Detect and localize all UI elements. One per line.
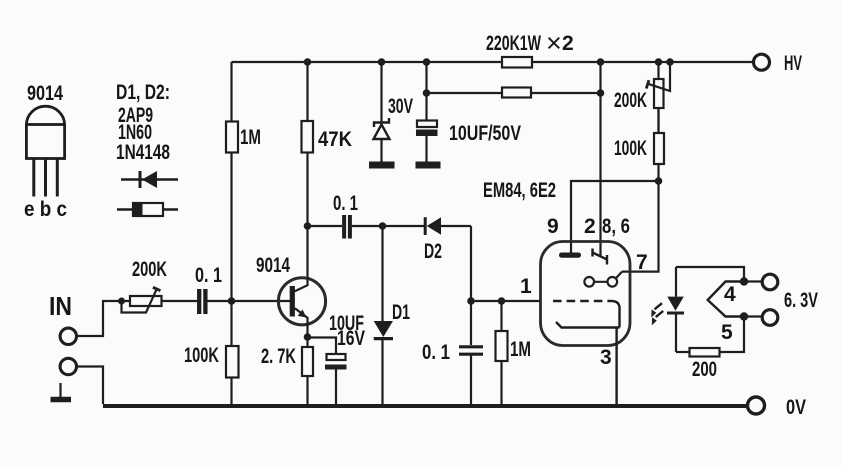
wire: heater bottom to terminal 5 [720, 317, 763, 353]
LED indicator [667, 267, 684, 352]
tube EM84/6E2 envelope [541, 242, 631, 346]
node: filter cap top on HV rail [423, 58, 431, 66]
node: 200K pot top on HV rail [655, 58, 663, 66]
svg-text:9014: 9014 [256, 254, 290, 277]
svg-text:0. 1: 0. 1 [333, 192, 358, 215]
terminal heater 5 [762, 310, 778, 326]
terminal 0V [748, 397, 765, 414]
svg-text:EM84, 6E2: EM84, 6E2 [483, 179, 556, 202]
heater filament symbol [708, 282, 744, 317]
svg-text:D1, D2:: D1, D2: [116, 81, 170, 104]
resistor 2.7K [302, 337, 313, 406]
svg-text:200K: 200K [132, 258, 167, 281]
node: 220K pair right on HV rail [597, 58, 605, 66]
wire: 200 resistor to LED [676, 351, 690, 353]
svg-text:6. 3V: 6. 3V [784, 289, 818, 312]
transistor Q1 9014 [278, 277, 325, 337]
capacitor 10UF 16V electrolytic [308, 338, 347, 407]
wire: second rail (filter node) [427, 92, 601, 94]
svg-text:200K: 200K [614, 89, 647, 112]
label 220K1W x2 [486, 28, 574, 58]
svg-text:D1: D1 [392, 301, 410, 324]
tube fluorescent target / pin 3 down wire [612, 301, 620, 328]
node: 100K bottom / screen junction [655, 177, 663, 185]
resistor 100K (input bias) [226, 301, 239, 406]
ground symbol [51, 383, 72, 400]
node: 1M bottom junction [228, 297, 236, 305]
svg-text:10UF/50V: 10UF/50V [449, 122, 521, 145]
resistor 1M (left, plate load) [226, 62, 238, 301]
wire: collector to 0.1 cap [308, 225, 343, 227]
node: filter cap on second rail [423, 89, 431, 97]
terminal IN upper [60, 328, 76, 344]
node: grid junction left [467, 297, 475, 305]
node: zener top on HV rail [378, 58, 386, 66]
wire: upper IN terminal to pot [77, 301, 131, 336]
ground bar of zener [369, 162, 395, 169]
capacitor 0.1 (top coupling) [344, 215, 350, 239]
capacitor 0.1 (input coupling) [199, 289, 205, 314]
svg-text:4: 4 [724, 283, 736, 306]
node: D1/D2 junction [379, 222, 387, 230]
node: heater top [740, 277, 748, 285]
svg-text:3: 3 [600, 346, 612, 369]
potentiometer 200K (input) [122, 287, 162, 312]
node: pot left junction [118, 298, 125, 305]
svg-text:2: 2 [562, 32, 574, 55]
capacitor 0.1 (grid) [459, 301, 483, 406]
svg-text:7: 7 [636, 251, 648, 274]
svg-text:5: 5 [721, 321, 733, 344]
ground bar of 10UF/50V [416, 162, 441, 169]
terminal heater 4 [762, 274, 778, 290]
wire: lower IN terminal to 0V rail [77, 367, 104, 405]
terminal HV [754, 54, 770, 70]
transistor package legend 9014 [26, 106, 64, 196]
resistor 47K [302, 62, 314, 277]
svg-text:×: × [546, 28, 562, 58]
wire: pin2/8,6 feed from rails [599, 62, 601, 257]
zener diode 30V [374, 62, 390, 163]
resistor 220K 1W upper [502, 57, 532, 68]
wire: screen feed to tube pin 9 [571, 181, 659, 256]
wire: LED loop top [676, 267, 763, 282]
diode D1 [374, 226, 393, 406]
svg-text:1N4148: 1N4148 [116, 141, 170, 164]
svg-text:16V: 16V [337, 327, 365, 350]
node: second rail to tube feed [597, 89, 605, 97]
tube electrode pin 9 bar [559, 253, 581, 258]
resistor 200 [690, 348, 720, 357]
tube pin 7 contact circles [584, 272, 622, 287]
svg-text:200: 200 [692, 358, 717, 381]
LED light arrows [651, 303, 663, 325]
node: heater bottom [740, 312, 748, 320]
svg-text:30V: 30V [388, 95, 413, 118]
svg-text:2. 7K: 2. 7K [261, 345, 296, 368]
node: collector / coupling junction [304, 222, 312, 230]
svg-text:9014: 9014 [27, 82, 63, 105]
svg-text:0V: 0V [786, 396, 806, 419]
potentiometer 200K (right) [654, 62, 664, 132]
svg-text:100K: 100K [184, 344, 219, 367]
svg-text:1M: 1M [510, 338, 531, 361]
svg-text:IN: IN [49, 291, 72, 321]
wire: pot to coupling cap [162, 300, 198, 302]
wire: cap to D2 [352, 225, 425, 227]
resistor 100K (right) [622, 109, 664, 272]
wire: cap to transistor base [207, 300, 290, 302]
tube grid dashed line (pin 1) [553, 300, 612, 302]
svg-text:1: 1 [520, 275, 532, 298]
node: emitter junction [304, 333, 312, 341]
diode schematic symbol legend [121, 171, 178, 188]
svg-text:100K: 100K [614, 137, 647, 160]
diode package drawing legend [117, 203, 178, 216]
tube cathode bar [556, 322, 620, 328]
resistor 220K 1W lower [502, 88, 531, 98]
node: 47K top on HV rail [304, 58, 312, 66]
terminal IN lower [60, 358, 76, 374]
capacitor 10UF/50V electrolytic [416, 62, 438, 163]
svg-text:47K: 47K [318, 128, 352, 151]
resistor 1M (grid) [496, 301, 508, 406]
wire: tube pin 3 to 0V rail [615, 328, 617, 407]
svg-text:2: 2 [584, 215, 596, 238]
svg-text:9: 9 [547, 215, 559, 238]
wiper of 200K pot [646, 62, 670, 91]
svg-text:0. 1: 0. 1 [422, 341, 450, 364]
svg-text:HV: HV [784, 52, 802, 75]
diode D2 [425, 217, 471, 301]
svg-text:e b c: e b c [24, 198, 67, 221]
node: 200K wiper on HV rail [666, 58, 674, 66]
svg-text:220K1W: 220K1W [486, 32, 541, 55]
wire: HV top rail [232, 61, 755, 63]
svg-text:8, 6: 8, 6 [602, 215, 630, 238]
node: grid junction right [498, 297, 506, 305]
tube electrode pins 2,8,6 [593, 249, 608, 265]
wire: 0V bottom rail [103, 404, 748, 408]
svg-text:D2: D2 [424, 240, 442, 263]
svg-text:1M: 1M [240, 126, 261, 149]
wire: grid node to tube pin 1 [471, 300, 540, 302]
svg-text:0. 1: 0. 1 [195, 264, 222, 287]
